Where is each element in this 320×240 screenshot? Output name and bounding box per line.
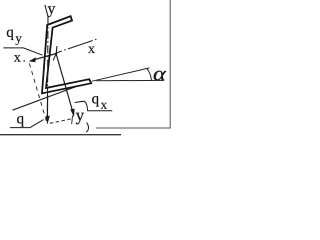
label y (top) (48, 6, 56, 17)
web wobble stroke (53, 54, 56, 61)
channel section outline (42, 16, 91, 93)
table cell right border (169, 0, 171, 128)
load line q: top dash (kinked) (45, 5, 48, 17)
label q (bottom) with underline and leader (17, 116, 24, 126)
label y (bottom, at tilted arrow) (76, 113, 84, 124)
y' axis tilted line with bottom arrow (56, 54, 73, 113)
arrowhead y' (70, 109, 74, 118)
label x (left) (14, 55, 21, 61)
x axis dash-dot (up-right from centroid) (56, 39, 98, 53)
roof slope line (12, 81, 91, 110)
centroid dot (55, 53, 57, 55)
x axis arrow to lower-left (q_y direction) (33, 54, 56, 61)
dashed parallelogram side (x-arrow tip to q-arrow tip) (29, 64, 47, 124)
horizontal reference line of angle (97, 79, 165, 81)
label q_y with underline and leader (7, 30, 14, 40)
dashed connector between arrow tips (50, 119, 72, 124)
angle arc (147, 68, 152, 80)
y' axis (tilted) stub above centroid (55, 46, 58, 54)
bottom rule (dark, left part) (0, 134, 121, 136)
arrowhead q (bottom-left arrow) (46, 116, 50, 125)
arrowhead x-left (29, 57, 36, 62)
label x (right, on dash-dot axis) (88, 47, 95, 53)
table cell bottom border (gray, right part) (96, 127, 171, 129)
load line q: vertical dash-dot (46, 17, 49, 118)
inclined line of angle alpha (92, 68, 150, 81)
alpha label (154, 71, 166, 81)
label q_x with underline and leader (92, 96, 99, 106)
y' tip smear (71, 116, 74, 125)
stray tail stroke right of bottom y (86, 123, 88, 132)
